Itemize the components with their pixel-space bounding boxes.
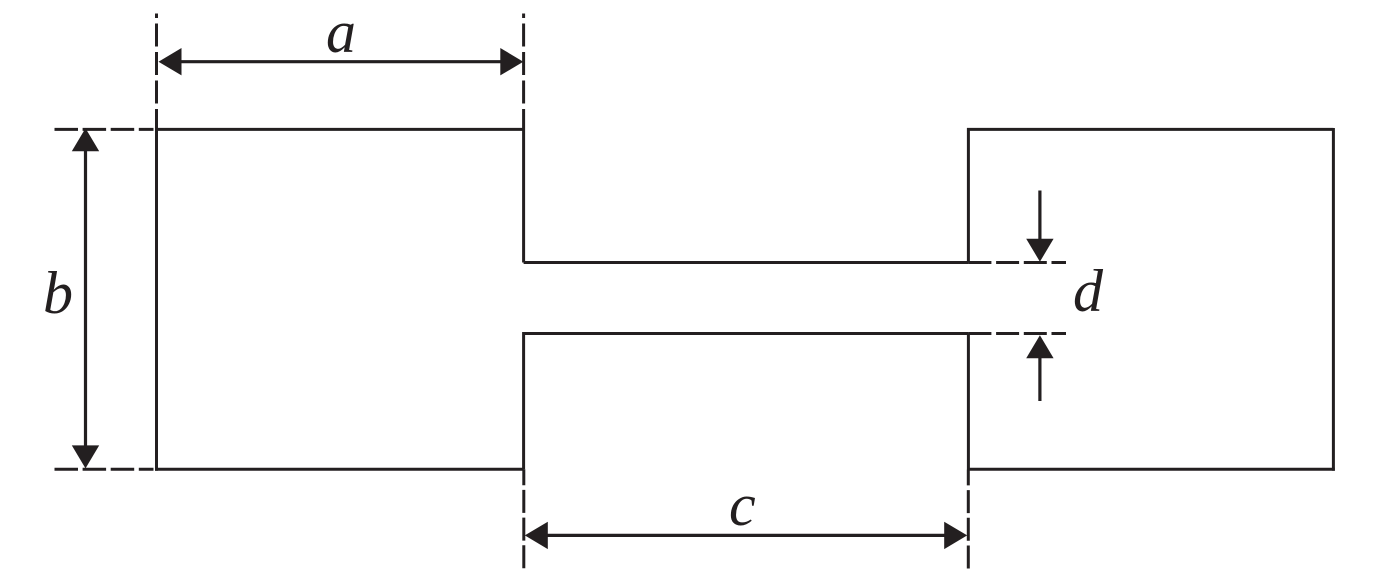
extension dashed vertical right of a <box>522 14 525 129</box>
extension dashed horizontal lower of d <box>968 332 1066 335</box>
dimension a right arrowhead <box>500 48 523 75</box>
dimension c shaft <box>544 534 948 537</box>
dimension d upper arrowhead <box>1026 239 1053 262</box>
left plate top edge <box>155 128 525 131</box>
step vertical at x=523.6 <box>522 128 525 263</box>
svg-text:b: b <box>43 260 73 326</box>
extension dashed vertical left of a <box>155 14 158 129</box>
dimension a shaft <box>178 60 505 63</box>
extension dashed vertical right of c <box>967 469 970 570</box>
dimension b bottom arrowhead <box>72 445 99 468</box>
extension dashed horizontal top of b <box>55 128 154 131</box>
dimension d lower arrow shaft <box>1038 356 1041 401</box>
dimension a left arrowhead <box>159 48 182 75</box>
dimension d lower arrowhead <box>1026 335 1053 358</box>
right plate top edge <box>967 128 1333 131</box>
extension dashed horizontal upper of d <box>968 261 1066 264</box>
svg-text:c: c <box>729 472 756 538</box>
right plate left edge <box>967 128 970 263</box>
right plate bottom edge <box>967 468 1335 471</box>
dimension c right arrowhead <box>944 522 967 549</box>
dimension b shaft <box>84 148 87 449</box>
extension dashed horizontal bottom of b <box>55 468 154 471</box>
overlap gap upper horizontal <box>524 261 969 264</box>
extension dashed vertical left of c <box>522 469 525 570</box>
svg-text:a: a <box>326 0 356 65</box>
left plate bottom edge <box>155 468 524 471</box>
overlap lower vertical at x=968.4 <box>967 334 970 470</box>
dimension d upper arrow shaft <box>1038 191 1041 241</box>
svg-text:d: d <box>1073 258 1104 324</box>
overlap gap lower horizontal <box>524 332 969 335</box>
dimension b top arrowhead <box>72 128 99 151</box>
dimension c left arrowhead <box>525 522 548 549</box>
lower-left vertical at x=523.6 <box>522 332 525 469</box>
left plate left edge <box>155 128 158 471</box>
right plate right edge <box>1332 128 1335 471</box>
